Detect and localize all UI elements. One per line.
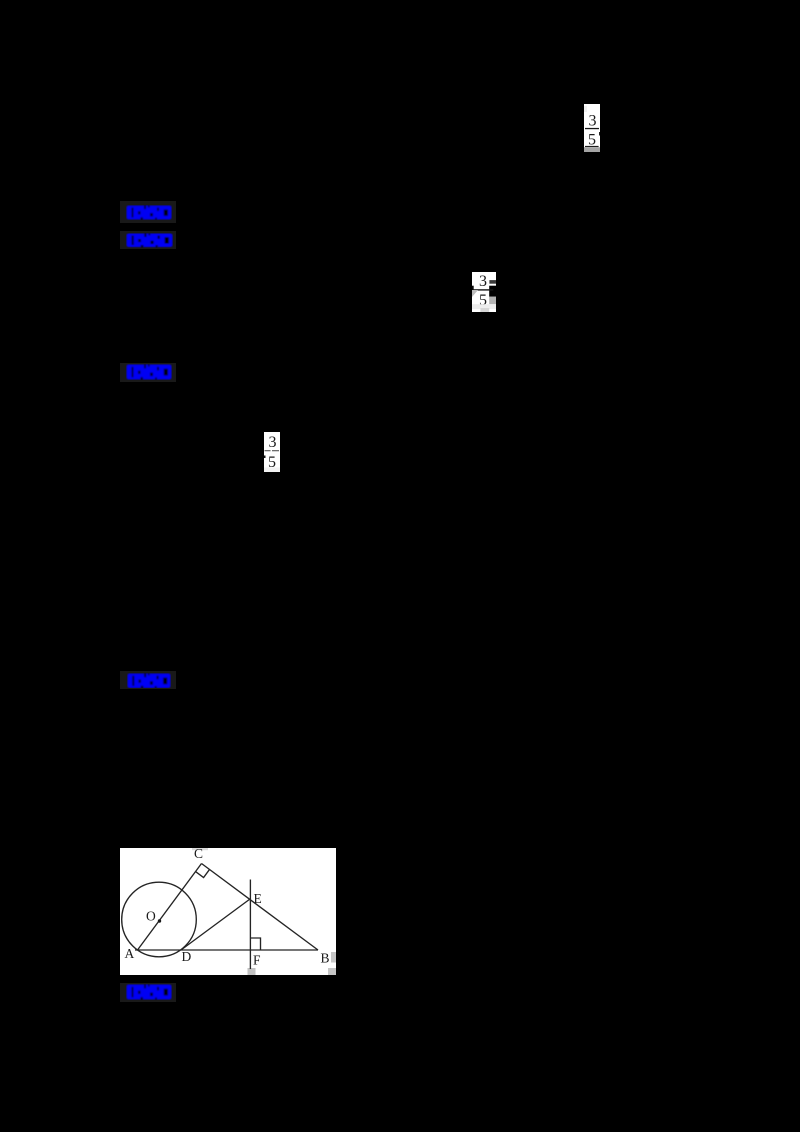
- blue label L4: [120, 671, 176, 689]
- blue label L2: [120, 231, 176, 249]
- blue label L5: [120, 983, 176, 1002]
- right angle at F: [250, 938, 260, 950]
- svg-text:F: F: [253, 953, 261, 968]
- centre dot O: [158, 919, 161, 922]
- fraction F1 (3/5, top right): [584, 104, 600, 152]
- fraction F2 (3/5, middle): [472, 272, 496, 312]
- vertical EF: [249, 880, 251, 970]
- line DE: [181, 899, 250, 950]
- blue label L1: [120, 201, 176, 223]
- svg-text:B: B: [321, 951, 330, 966]
- line AB: [135, 949, 318, 951]
- line CB: [202, 864, 319, 951]
- svg-text:3: 3: [589, 112, 597, 129]
- svg-text:D: D: [182, 949, 192, 964]
- svg-text:E: E: [254, 891, 262, 906]
- svg-text:3: 3: [479, 273, 487, 290]
- right angle at C: [196, 869, 210, 877]
- blue label L3: [120, 363, 176, 382]
- svg-text:O: O: [146, 909, 156, 924]
- grey scan patches: [192, 848, 208, 850]
- line AC: [138, 864, 202, 951]
- fraction F3 (3/5, lower left): [264, 432, 280, 472]
- svg-text:C: C: [194, 848, 203, 861]
- svg-text:3: 3: [269, 434, 277, 451]
- svg-text:A: A: [125, 946, 135, 961]
- circle O: [122, 882, 197, 957]
- geometry figure: [120, 848, 336, 975]
